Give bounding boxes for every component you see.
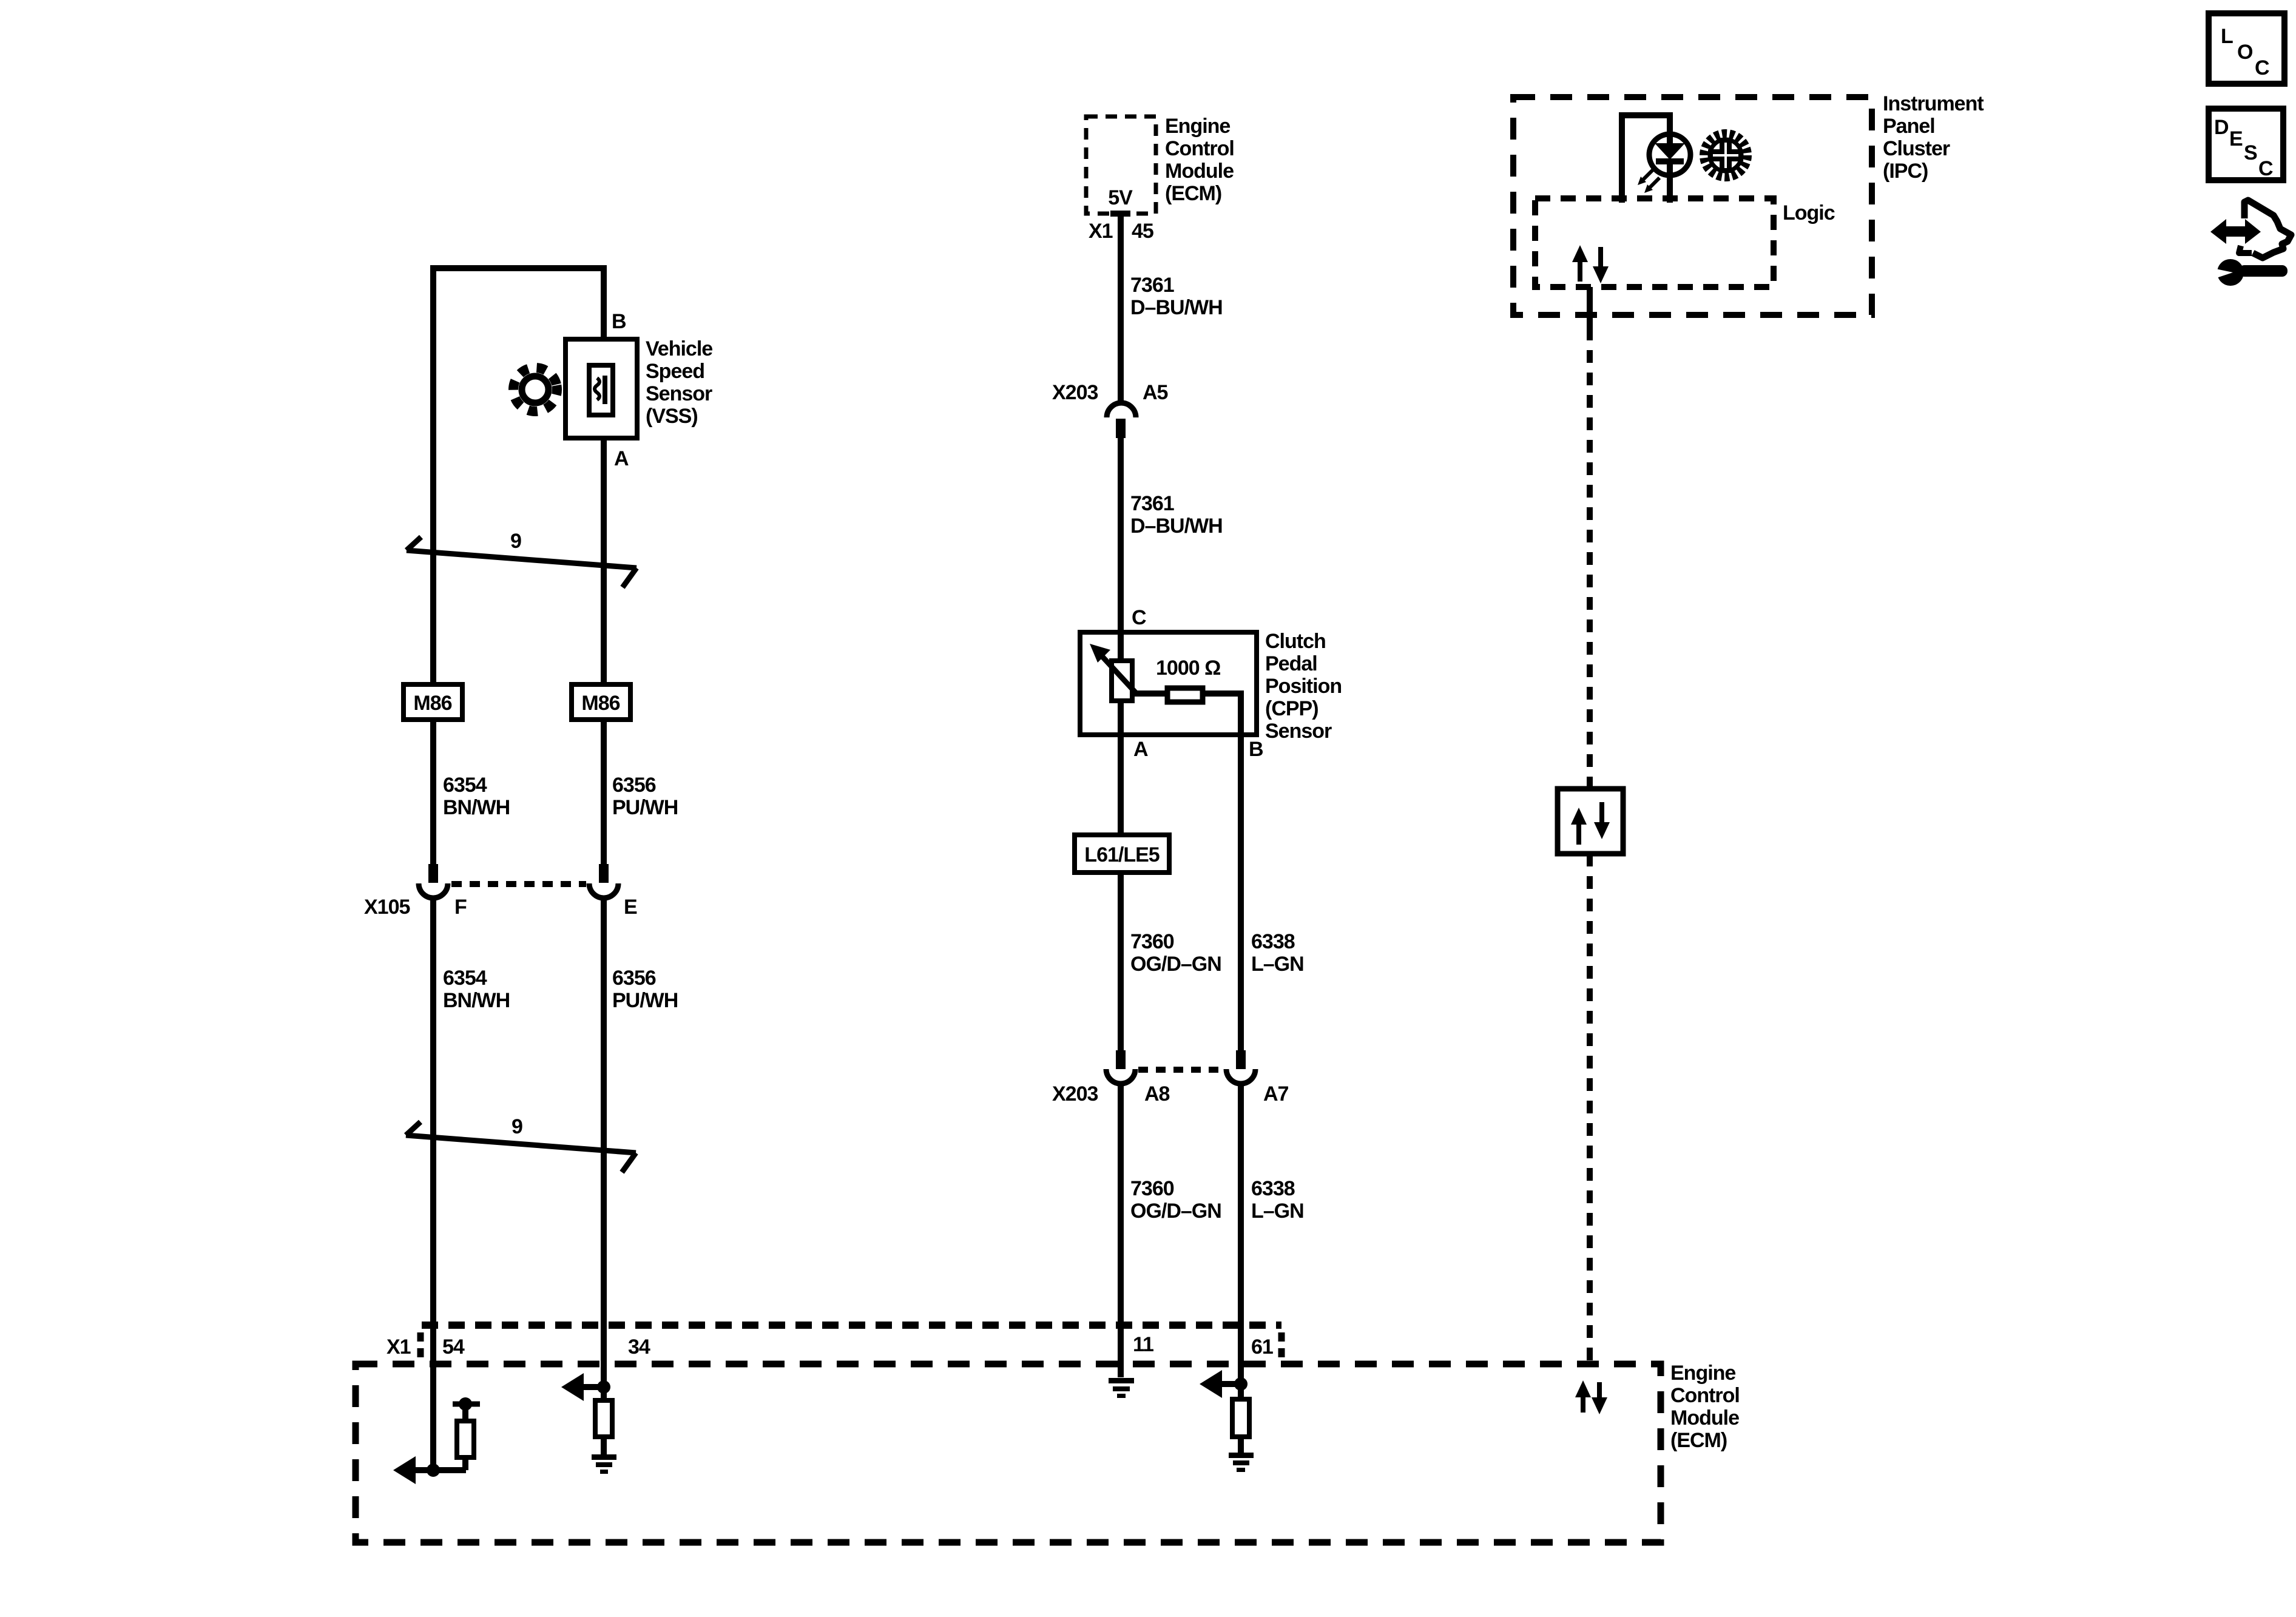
connector X105 pin E [589,864,618,898]
svg-text:7361: 7361 [1130,274,1174,297]
svg-text:Pedal: Pedal [1265,652,1317,675]
connector X203 pin A8 [1106,1050,1135,1084]
connector X105 pin F [419,864,448,898]
wire 6356 upper [601,720,607,864]
svg-text:Speed: Speed [646,360,704,383]
svg-text:M86: M86 [581,692,620,715]
svg-text:L61/LE5: L61/LE5 [1084,843,1159,866]
svg-text:1000 Ω: 1000 Ω [1156,657,1220,680]
engine code box L61/LE5 [1075,835,1169,873]
svg-text:45: 45 [1132,220,1153,243]
svg-text:PU/WH: PU/WH [612,989,678,1012]
ECM top dashed box [1086,116,1156,214]
connector X203 pin A5 [1107,403,1136,438]
wire 6338 lower [1238,1084,1244,1384]
svg-text:PU/WH: PU/WH [612,796,678,819]
wire 6356 lower [601,899,607,1387]
svg-text:C: C [1132,606,1146,629]
svg-text:M86: M86 [413,692,451,715]
svg-text:E: E [624,896,637,919]
twisted pair crossing 9 (upper) [407,530,636,587]
connector X105 dashed line [451,881,586,887]
svg-text:D: D [2214,116,2229,139]
connector X1 left tick [417,1332,424,1358]
wire 7361 lower [1118,438,1124,661]
svg-text:7360: 7360 [1130,1177,1174,1200]
svg-text:F: F [454,896,467,919]
node junction 54 [427,1463,440,1477]
ground (61 internal) [1229,1453,1254,1472]
svg-text:BN/WH: BN/WH [443,796,510,819]
wire wiper to resistor [1134,690,1167,697]
IPC dashed box [1513,97,1872,315]
svg-text:Sensor: Sensor [646,382,712,405]
svg-text:Control: Control [1670,1384,1740,1407]
resistor 1000 ohm [1167,688,1203,702]
logic dashed box [1535,198,1774,287]
wire serial data (dashed) upper [1587,287,1593,328]
wire 7360 lower [1118,1084,1124,1377]
service icon (arrow / panel / wrench) [2210,200,2291,286]
potentiometer element [1112,661,1132,701]
serial data arrows (ECM) [1575,1380,1607,1414]
serial data box [1558,789,1623,854]
svg-text:O: O [2237,41,2253,64]
arrow (54 internal) [393,1456,416,1484]
svg-text:D–BU/WH: D–BU/WH [1130,515,1223,538]
svg-text:B: B [612,310,626,333]
svg-text:Position: Position [1265,675,1342,698]
wire resistor to B leg [1203,694,1241,735]
svg-text:A: A [1133,738,1148,761]
wire A leg inside box [1118,701,1124,735]
gear icon (IPC) [1704,133,1747,177]
svg-text:L: L [2221,25,2233,48]
svg-text:Panel: Panel [1883,115,1935,138]
svg-text:(IPC): (IPC) [1883,160,1928,183]
svg-text:(ECM): (ECM) [1670,1429,1727,1452]
node junction 61 [1234,1377,1248,1391]
svg-text:C: C [2255,56,2269,79]
svg-text:5V: 5V [1108,186,1133,209]
wire 7361 upper [1118,214,1124,403]
svg-text:X1: X1 [1089,220,1113,243]
svg-text:54: 54 [442,1335,465,1359]
svg-text:OG/D–GN: OG/D–GN [1130,953,1221,976]
svg-text:6354: 6354 [443,967,487,990]
svg-text:Engine: Engine [1165,115,1230,138]
svg-text:C: C [2258,157,2273,180]
svg-text:A7: A7 [1263,1082,1289,1106]
connector M86 (right) [572,684,630,720]
svg-text:Module: Module [1165,160,1234,183]
svg-text:Sensor: Sensor [1265,720,1332,743]
svg-text:BN/WH: BN/WH [443,989,510,1012]
connector X203 pin A7 [1226,1050,1255,1084]
svg-text:Cluster: Cluster [1883,137,1950,160]
twisted pair crossing 9 (lower) [406,1115,636,1172]
LED indicator circuit [1622,115,1690,203]
svg-text:B: B [1249,738,1263,761]
wire VSS left vertical (B side upper) [430,265,436,684]
arrow (34 internal) [561,1373,584,1401]
svg-text:Logic: Logic [1783,201,1835,224]
svg-text:L–GN: L–GN [1251,953,1304,976]
wire serial data (dashed) lower [1587,854,1593,1364]
svg-text:6338: 6338 [1251,930,1295,953]
svg-text:6356: 6356 [612,774,656,797]
svg-text:Clutch: Clutch [1265,630,1326,653]
svg-text:Module: Module [1670,1406,1739,1430]
svg-text:(ECM): (ECM) [1165,182,1221,205]
svg-text:(VSS): (VSS) [646,405,698,428]
ground (11 internal) [1109,1378,1134,1398]
gear icon (VSS) [510,364,561,415]
svg-text:S: S [2244,141,2257,164]
wire 6354 lower [430,899,436,1470]
svg-text:Engine: Engine [1670,1362,1735,1385]
svg-text:11: 11 [1133,1333,1153,1356]
svg-text:6338: 6338 [1251,1177,1295,1200]
svg-text:9: 9 [510,530,521,553]
resistor (61 internal) [1232,1384,1249,1453]
svg-text:Control: Control [1165,137,1234,160]
svg-text:E: E [2229,127,2243,150]
svg-text:9: 9 [512,1115,522,1138]
wire 6338 upper [1238,735,1244,1050]
svg-text:X203: X203 [1052,381,1098,404]
svg-text:(CPP): (CPP) [1265,697,1319,720]
CPP sensor box [1080,632,1257,735]
svg-text:Vehicle: Vehicle [646,337,712,360]
pin stub X1-45 [1110,211,1130,217]
svg-text:OG/D–GN: OG/D–GN [1130,1200,1221,1223]
connector M86 (left) [403,684,462,720]
vehicle speed sensor VSS box [566,339,637,438]
wiper arrow [1099,653,1136,694]
svg-text:L–GN: L–GN [1251,1200,1304,1223]
svg-text:A8: A8 [1144,1082,1170,1106]
DESC box [2209,109,2283,180]
ECM bottom dashed box [356,1364,1661,1542]
wire 7360 below code box [1118,873,1124,1050]
wire VSS loop top horizontal [430,265,607,271]
svg-text:6354: 6354 [443,774,487,797]
svg-text:X105: X105 [364,896,410,919]
wire 7360 upper [1118,735,1124,835]
arrow (61 internal) [1200,1370,1222,1398]
ground (34 internal) [592,1454,616,1474]
connector X1 dashed line [422,1322,1281,1329]
node junction 34 [597,1380,610,1394]
connector X203 dashed line [1138,1067,1223,1073]
svg-text:A5: A5 [1143,381,1168,404]
resistor (54 internal) [453,1397,480,1470]
svg-text:7360: 7360 [1130,930,1174,953]
VSS inner sensor element [589,365,613,415]
svg-text:X1: X1 [387,1335,411,1359]
resistor (34 internal) [595,1387,612,1454]
connector X1 right tick [1278,1332,1285,1363]
svg-text:X203: X203 [1052,1082,1098,1106]
svg-text:Instrument: Instrument [1883,92,1984,115]
wire 6354 upper [430,720,436,864]
svg-text:6356: 6356 [612,967,656,990]
svg-text:D–BU/WH: D–BU/WH [1130,296,1223,319]
svg-text:7361: 7361 [1130,492,1174,515]
serial data arrows (logic) [1572,245,1609,283]
svg-text:A: A [614,447,629,470]
svg-text:34: 34 [628,1335,650,1359]
svg-text:61: 61 [1251,1335,1273,1359]
wire VSS right vertical through sensor [601,265,607,684]
LOC box [2209,13,2284,84]
